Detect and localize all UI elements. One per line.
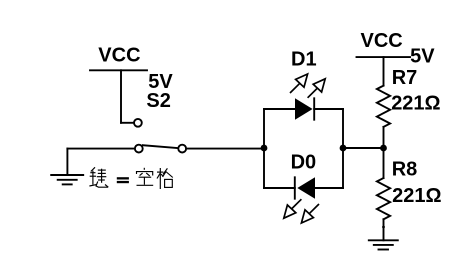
svg-text:D1: D1: [291, 48, 317, 70]
svg-text:5V: 5V: [410, 46, 435, 68]
svg-text:R8: R8: [392, 158, 418, 180]
svg-text:R7: R7: [392, 67, 418, 89]
svg-text:S2: S2: [146, 90, 170, 112]
svg-text:VCC: VCC: [361, 30, 403, 52]
svg-text:221Ω: 221Ω: [392, 185, 441, 207]
svg-text:221Ω: 221Ω: [391, 92, 440, 114]
svg-text:VCC: VCC: [98, 45, 140, 67]
svg-text:D0: D0: [291, 151, 317, 173]
